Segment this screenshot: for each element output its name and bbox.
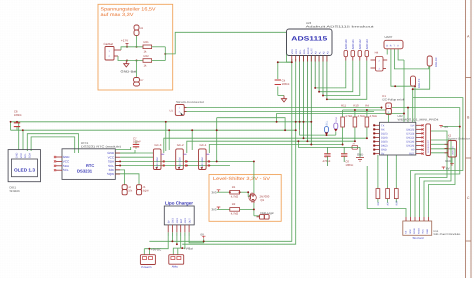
- frame right border: [466, 0, 472, 278]
- svg-text:3V3: 3V3: [212, 208, 217, 212]
- svg-text:A0 D5 D6 D7: A0 D5 D6 D7: [427, 139, 430, 153]
- resistor R21: [143, 40, 152, 53]
- wire PAD-RX drop: [413, 66, 430, 122]
- wire braid L3: [300, 130, 336, 135]
- svg-text:Lipo Charger: Lipo Charger: [165, 201, 193, 206]
- connector GC-3: [153, 143, 164, 170]
- jumper J5 SQW: [137, 185, 150, 195]
- svg-text:GND-Bat: GND-Bat: [121, 70, 137, 74]
- wire C7 drop: [135, 141, 137, 149]
- ADS1115 pin stubs: [292, 56, 327, 62]
- connector Akku: [169, 255, 184, 269]
- capacitor C4: [275, 78, 290, 86]
- connector Powerin: [140, 255, 155, 269]
- wire PAD-TX drop: [412, 88, 414, 90]
- connector J1 small: [352, 142, 358, 149]
- svg-text:CarBat: CarBat: [104, 42, 114, 46]
- svg-text:D0(16): D0(16): [406, 145, 414, 148]
- wire OLED VCC: [27, 134, 78, 153]
- svg-text:4,7kΩ: 4,7kΩ: [370, 115, 377, 118]
- svg-text:D6(12): D6(12): [406, 136, 414, 139]
- wire Strom-Connector net 2: [184, 111, 374, 113]
- svg-text:VCC: VCC: [422, 229, 425, 234]
- annotation box Spannungsteiler: [98, 4, 173, 90]
- svg-text:4,7kΩ: 4,7kΩ: [358, 115, 365, 118]
- WEMOS right pins: [416, 124, 424, 155]
- svg-text:GND: GND: [63, 155, 71, 159]
- svg-text:BAT: BAT: [180, 218, 183, 223]
- svg-text:DS3231: DS3231: [77, 168, 93, 173]
- connector X2 Power-Selector: [445, 133, 470, 157]
- svg-text:VCC: VCC: [445, 159, 451, 163]
- svg-text:R1: R1: [232, 185, 236, 189]
- svg-text:GC-2: GC-2: [177, 143, 184, 147]
- supply +17V: [121, 39, 129, 47]
- wire X2 feeds: [431, 144, 449, 153]
- svg-text:Adafruit ADS1115 breakout: Adafruit ADS1115 breakout: [306, 24, 374, 28]
- wire H1 to WEMOS: [382, 107, 389, 122]
- wire GC bus B: [116, 165, 230, 167]
- wire Lipo pin drops: [144, 232, 203, 254]
- capacitor C7: [133, 136, 141, 147]
- svg-text:U7: U7: [140, 79, 144, 82]
- svg-text:+5V-DC: +5V-DC: [151, 247, 161, 251]
- svg-text:RST: RST: [409, 153, 415, 156]
- capacitor C6: [341, 147, 354, 166]
- wire GC supply drops: [166, 118, 217, 162]
- svg-text:OUT: OUT: [188, 218, 191, 224]
- wire Spannungsteiler output to ADS1115: [165, 32, 291, 62]
- svg-text:RST: RST: [395, 200, 398, 205]
- svg-text:5V: 5V: [167, 220, 170, 223]
- wire WEMOS right to SD staircase: [420, 131, 456, 217]
- wire 0V stub: [203, 239, 205, 242]
- display module OLED 1.3 DIS1: [8, 150, 40, 193]
- svg-text:VCC: VCC: [63, 159, 70, 163]
- wire nested GC top feed 2: [187, 141, 355, 153]
- supply 3V3 upper: [212, 190, 221, 195]
- resistor R1: [230, 185, 240, 199]
- supply VCC: [445, 157, 454, 166]
- pad PAD-TX: [411, 76, 422, 88]
- module SD-Card U16: [403, 221, 461, 240]
- svg-text:100nF: 100nF: [345, 163, 353, 167]
- svg-text:Spannungsteiler 16,5V: Spannungsteiler 16,5V: [101, 7, 157, 12]
- svg-text:GND: GND: [381, 149, 387, 152]
- RTC left pins: [54, 156, 62, 171]
- wire OLED SCL drop: [18, 122, 20, 150]
- svg-text:100nF: 100nF: [133, 140, 141, 144]
- net label +V-Bat: [184, 247, 193, 251]
- connector UART: [384, 35, 403, 49]
- test pads ADC A0-A3: [344, 39, 369, 57]
- resistor pull D5: [376, 189, 380, 206]
- svg-text:R22: R22: [144, 54, 150, 58]
- svg-text:R: R: [390, 44, 392, 47]
- net label +5V-DC: [151, 247, 161, 251]
- svg-text:R4: R4: [365, 104, 369, 108]
- test point U2: [134, 25, 144, 36]
- wire U2 drop: [136, 36, 138, 47]
- svg-text:R11: R11: [341, 104, 346, 108]
- resistor R10: [353, 104, 364, 128]
- svg-text:D2(4): D2(4): [381, 136, 388, 139]
- jumper High-Logic: [257, 211, 275, 219]
- wire braid to cap rail: [298, 141, 327, 147]
- ground below C4: [281, 96, 286, 103]
- svg-text:ADS1115: ADS1115: [291, 35, 328, 42]
- svg-text:D7(13): D7(13): [406, 132, 414, 135]
- svg-text:ADDR: ADDR: [307, 47, 310, 54]
- resistor R11: [341, 104, 352, 128]
- svg-text:SCL: SCL: [326, 120, 329, 125]
- svg-text:RTC: RTC: [86, 163, 94, 168]
- svg-text:+V-Bat: +V-Bat: [184, 247, 193, 251]
- pad PAD-RX: [427, 56, 438, 67]
- svg-text:GND: GND: [176, 218, 179, 224]
- svg-text:D1(5): D1(5): [381, 132, 388, 135]
- resistor pull RST: [394, 189, 398, 206]
- test pin SDA purple: [334, 117, 338, 135]
- wire cap rail: [327, 146, 360, 148]
- svg-text:PAD-RX: PAD-RX: [435, 57, 438, 67]
- annotation box Level-Shifter: [209, 175, 281, 222]
- svg-text:4,7kΩ: 4,7kΩ: [345, 115, 352, 118]
- svg-text:G: G: [386, 44, 388, 47]
- wire CarBat minus: [118, 56, 143, 61]
- svg-text:VDD: VDD: [291, 49, 294, 54]
- SD-Card pins: [406, 217, 429, 221]
- module Lipo Charger: [164, 201, 194, 225]
- svg-text:CS: CS: [405, 230, 408, 234]
- capacitor C8: [14, 110, 22, 127]
- supply 3V3 lower: [212, 207, 221, 212]
- svg-text:GND: GND: [184, 218, 187, 224]
- wire U7 drop: [136, 61, 138, 78]
- ADC module ADS1115 U23: [287, 21, 375, 56]
- wire RTC to GC row: [120, 153, 153, 157]
- svg-text:GND: GND: [295, 49, 298, 55]
- connector GC-1: [199, 143, 210, 170]
- svg-text:TX: TX: [381, 124, 385, 127]
- wire right column 2: [411, 98, 463, 217]
- svg-text:GC-1234: GC-1234: [156, 157, 159, 167]
- svg-text:GND: GND: [172, 218, 175, 224]
- wire I2C pullup to right column: [392, 108, 460, 217]
- svg-text:Powerin: Powerin: [141, 265, 152, 269]
- svg-text:SD-Card Module: SD-Card Module: [433, 233, 461, 236]
- wire divider right: [152, 47, 166, 61]
- wire WEMOS top feeds: [404, 60, 408, 122]
- svg-text:SQW: SQW: [107, 172, 114, 176]
- svg-text:Q1: Q1: [260, 198, 264, 202]
- wire 0V right: [442, 126, 460, 128]
- svg-text:ADC A3: ADC A3: [365, 39, 369, 49]
- svg-text:D8(15): D8(15): [406, 128, 414, 131]
- svg-text:MISO: MISO: [417, 228, 420, 234]
- wire braid upper: [217, 114, 404, 131]
- wire I2C SCL bus: [11, 121, 312, 123]
- Lipo Charger pins: [168, 225, 189, 232]
- jumper J4 32k: [122, 185, 133, 195]
- svg-text:GC-1234: GC-1234: [201, 157, 204, 167]
- svg-text:auf max 3,3V: auf max 3,3V: [101, 12, 135, 17]
- svg-text:VCC: VCC: [20, 153, 23, 158]
- resistor R22: [143, 54, 152, 67]
- supply 0V lower right: [442, 167, 450, 171]
- wire nested GC top feed 1: [164, 138, 367, 153]
- wire pullup bottoms: [343, 127, 367, 145]
- svg-text:GC-1234: GC-1234: [178, 157, 181, 167]
- wire VBat rail down-left: [182, 59, 296, 244]
- wire Strom-Connector net 1: [184, 106, 381, 108]
- svg-text:ADC A1: ADC A1: [351, 39, 355, 49]
- wire OLED SDA drop: [22, 130, 24, 150]
- jumper H1 I2C-Pullup: [382, 94, 404, 114]
- svg-text:OLED 1.3: OLED 1.3: [14, 168, 36, 173]
- supply 0V near X2: [439, 125, 448, 129]
- svg-text:ADC A2: ADC A2: [358, 39, 362, 49]
- svg-text:D4(2): D4(2): [381, 145, 388, 148]
- svg-text:SQW: SQW: [143, 189, 150, 192]
- svg-text:Strom-Connector: Strom-Connector: [176, 100, 204, 104]
- svg-text:SCL: SCL: [24, 153, 27, 158]
- svg-text:GND: GND: [426, 229, 429, 234]
- svg-text:GND: GND: [16, 152, 19, 158]
- svg-text:R21: R21: [144, 40, 150, 44]
- wire C8 taps: [16, 122, 18, 130]
- wire GC bus A: [116, 160, 254, 162]
- svg-text:+17V: +17V: [121, 39, 128, 43]
- ground GND-Bat: [121, 61, 137, 74]
- wire UART pin drops: [387, 49, 429, 123]
- svg-text:0V: 0V: [201, 232, 205, 236]
- ground GND near WEMOS: [356, 147, 364, 161]
- test pin SCL blue: [325, 120, 329, 135]
- resistor pull A0: [386, 189, 390, 206]
- svg-text:3V3: 3V3: [212, 190, 217, 194]
- svg-text:SCL: SCL: [299, 49, 302, 54]
- svg-text:UART: UART: [385, 35, 393, 39]
- connector H4: [371, 51, 388, 72]
- wire RTC top feeds: [116, 147, 135, 153]
- test point U7: [134, 78, 145, 87]
- svg-text:5V: 5V: [381, 153, 384, 156]
- supply 0V bottom: [201, 232, 206, 238]
- transistor Q1 2N7000: [249, 193, 270, 204]
- svg-text:U1: U1: [170, 110, 174, 113]
- wire level shifter R1 row: [217, 192, 251, 196]
- svg-text:SH1106: SH1106: [10, 189, 21, 193]
- svg-text:GC-3: GC-3: [154, 143, 161, 147]
- svg-text:5V!: 5V!: [410, 124, 414, 127]
- svg-text:VBAT 5V: VBAT 5V: [451, 146, 454, 155]
- svg-text:DS3231 RTC (module): DS3231 RTC (module): [81, 144, 121, 148]
- svg-text:WEMOS_D1_MINI_PRO4: WEMOS_D1_MINI_PRO4: [398, 118, 440, 122]
- wire ADS1115 pin drops: [300, 56, 327, 145]
- wire RTC right buses: [116, 161, 139, 184]
- svg-text:4,7kΩ: 4,7kΩ: [231, 212, 238, 216]
- svg-text:GC-1: GC-1: [200, 143, 207, 147]
- wire nested GC top feed 3: [209, 145, 342, 154]
- svg-text:SDA: SDA: [303, 49, 306, 54]
- svg-text:0V: 0V: [446, 167, 450, 171]
- capacitor C1: [323, 147, 331, 166]
- connector GC-2: [176, 143, 187, 170]
- svg-text:SDA: SDA: [335, 117, 338, 122]
- svg-text:H4: H4: [375, 51, 379, 55]
- wire ADC pad drops: [315, 57, 367, 100]
- svg-text:MOSI: MOSI: [413, 228, 416, 234]
- resistor R4: [365, 104, 376, 128]
- svg-text:SDA: SDA: [29, 153, 32, 158]
- svg-text:SCL: SCL: [63, 168, 69, 172]
- svg-text:U2: U2: [140, 27, 144, 30]
- wire OLED GND: [31, 137, 75, 153]
- wire CarBat plus: [121, 47, 143, 50]
- svg-text:I2C-Pullup en/off: I2C-Pullup en/off: [382, 98, 404, 102]
- svg-text:R10: R10: [353, 104, 359, 108]
- RTC module DS3231 RTC1: [62, 141, 121, 180]
- battery connector CarBat: [104, 42, 122, 60]
- svg-text:Level-Shifter 3,3V - 5V: Level-Shifter 3,3V - 5V: [213, 176, 271, 181]
- svg-text:R2: R2: [232, 202, 236, 206]
- svg-text:RX: RX: [381, 128, 385, 131]
- wire level shifter drain drop: [254, 161, 260, 215]
- wire I2C SDA bus: [11, 122, 296, 130]
- microcontroller module WEMOS D1 mini U22: [380, 114, 440, 155]
- wire SD left feed: [367, 166, 406, 217]
- svg-text:PAD-TX: PAD-TX: [418, 78, 421, 88]
- wire 5V rail down-left: [149, 59, 291, 241]
- svg-text:ALRT: ALRT: [311, 48, 314, 55]
- svg-text:470uF: 470uF: [323, 159, 331, 163]
- svg-text:D3(0): D3(0): [381, 141, 388, 144]
- svg-text:4,7kΩ: 4,7kΩ: [231, 195, 238, 199]
- svg-text:100nF: 100nF: [282, 82, 290, 86]
- connector Strom-Connector U1: [170, 100, 205, 115]
- wire ADS1115 VDD to C4: [278, 62, 292, 95]
- WEMOS left pins: [373, 124, 379, 154]
- wire pullup rail: [343, 110, 386, 117]
- svg-text:D5(14): D5(14): [406, 141, 414, 144]
- wire pull resistor drops: [378, 155, 396, 203]
- svg-text:100nF: 100nF: [14, 113, 22, 117]
- svg-text:SDA: SDA: [63, 164, 69, 168]
- svg-text:SCK: SCK: [409, 229, 412, 234]
- svg-text:ADC A0: ADC A0: [344, 39, 348, 49]
- svg-text:Akku: Akku: [172, 265, 179, 269]
- RTC right pins: [115, 153, 120, 174]
- wire level shifter R2 row: [217, 208, 254, 210]
- svg-text:A0: A0: [411, 149, 415, 152]
- svg-text:0V: 0V: [445, 125, 449, 129]
- pin header right of WEMOS: [426, 124, 431, 156]
- svg-text:SD-Card: SD-Card: [413, 236, 424, 240]
- resistor R2: [230, 202, 240, 216]
